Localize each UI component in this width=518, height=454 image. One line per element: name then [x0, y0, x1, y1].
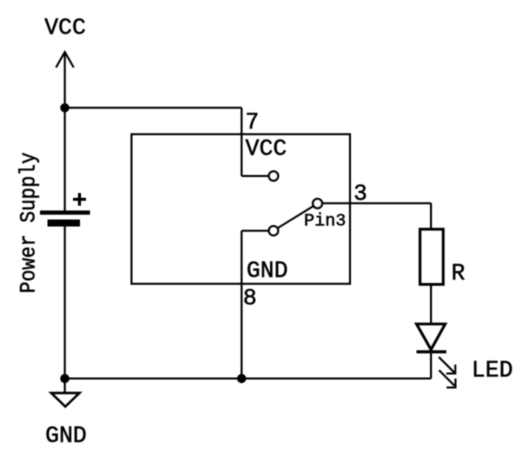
ground symbol wire stub [64, 379, 66, 394]
junction dot at VCC rail [60, 103, 69, 112]
switch contact circle (Pin3 side) [313, 199, 323, 209]
switch pole circle (GND side) [269, 226, 279, 236]
battery BT1 positive plate [40, 211, 90, 215]
battery BT1 positive wire [64, 108, 66, 211]
IC box U1 [132, 134, 351, 284]
LED emission arrow 1 [439, 357, 456, 374]
battery BT1 negative plate [48, 220, 81, 227]
wire VCC rail horizontal to pin 7 [65, 107, 242, 109]
LED D1 diode triangle [417, 324, 446, 350]
junction dot ground rail left [60, 374, 69, 383]
svg-text:GND: GND [45, 423, 86, 449]
wire pin 8 vertical to ground rail [241, 231, 243, 379]
battery plus sign [73, 193, 86, 206]
wire from switch pole to pin 8 column [242, 230, 269, 232]
svg-text:LED: LED [472, 357, 513, 383]
svg-text:7: 7 [245, 110, 259, 136]
wire pin 3 to resistor column [322, 202, 431, 204]
wire LED to ground rail [430, 353, 432, 379]
LED emission arrow 2 [439, 370, 456, 387]
wire pin 7 vertical into box [241, 108, 243, 176]
ground symbol triangle [51, 393, 79, 407]
svg-text:VCC: VCC [45, 15, 86, 41]
battery BT1 negative wire [64, 227, 66, 379]
wire ground rail horizontal [65, 378, 431, 380]
svg-text:GND: GND [247, 258, 288, 284]
svg-text:VCC: VCC [245, 136, 286, 162]
VCC power symbol arrow [56, 52, 74, 108]
wire pin 7 stub to switch contact [242, 175, 269, 177]
wire resistor to LED [430, 284, 432, 324]
switch blade [278, 206, 314, 228]
svg-text:8: 8 [243, 286, 257, 312]
svg-text:3: 3 [354, 181, 368, 207]
LED cathode bar [417, 350, 447, 353]
svg-text:R: R [451, 261, 465, 287]
resistor R [420, 229, 443, 284]
svg-text:Power Supply: Power Supply [17, 152, 42, 293]
junction dot ground rail pin 8 [237, 374, 246, 383]
switch contact circle (VCC side) [269, 171, 279, 181]
svg-text:Pin3: Pin3 [304, 212, 346, 232]
wire resistor column down to resistor [430, 203, 432, 229]
